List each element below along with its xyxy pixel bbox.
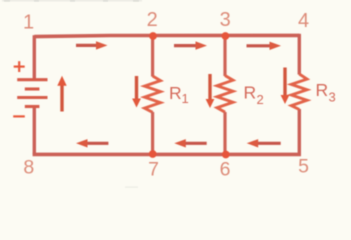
svg-text:R: R [244, 83, 257, 103]
svg-text:R: R [169, 83, 182, 103]
svg-text:1: 1 [182, 91, 189, 106]
wire left upper (node1 to battery) [33, 35, 36, 78]
svg-text:1: 1 [23, 11, 34, 33]
resistor R2 zigzag [217, 76, 233, 113]
resistor R3 zigzag (in right wire) [291, 74, 307, 110]
battery - sign [13, 115, 25, 117]
current arrow down (R2 branch) [206, 74, 215, 108]
svg-text:2: 2 [257, 92, 264, 107]
current arrow up (battery branch) [57, 76, 66, 112]
junction node 6 [222, 151, 230, 159]
current arrow right (node2-3 segment) [174, 41, 207, 49]
wire branch node3-6 upper stub [223, 36, 226, 77]
svg-text:8: 8 [23, 157, 34, 179]
svg-text:R: R [316, 80, 329, 100]
wire right lower (R3 to node5) [298, 109, 301, 154]
current arrow left (node8-7 segment) [76, 139, 108, 147]
svg-text:6: 6 [220, 159, 231, 181]
wire right upper (node4 to R3) [298, 34, 301, 75]
current arrow down (R1 branch) [132, 76, 141, 108]
svg-text:7: 7 [148, 159, 159, 181]
battery B1 plates [17, 80, 47, 107]
cropped text remnant top edge [2, 0, 142, 2]
resistor R1 zigzag [145, 76, 161, 112]
svg-text:5: 5 [298, 156, 309, 178]
wire top (node1-2-3-4) [34, 35, 299, 36]
junction node 7 [149, 150, 157, 158]
current arrow right (node1-2 segment) [76, 41, 108, 49]
wire branch node3-6 lower stub [223, 112, 226, 154]
svg-text:3: 3 [220, 9, 231, 31]
svg-text:3: 3 [329, 90, 336, 105]
battery + sign [14, 61, 25, 72]
current arrow left (node7-6 segment) [174, 139, 206, 147]
current arrow down (R3 branch) [281, 68, 290, 105]
wire left lower (battery to node8) [33, 107, 36, 154]
svg-text:2: 2 [147, 9, 158, 31]
cropped caption remnant bottom [125, 187, 138, 188]
wire branch node2-7 upper stub [151, 36, 154, 77]
current arrow right (node3-4 segment) [247, 42, 282, 50]
svg-text:4: 4 [298, 10, 309, 32]
wire branch node2-7 lower stub [151, 112, 154, 154]
junction node 2 [149, 32, 157, 40]
wire bottom (node8-7-6-5) [33, 153, 301, 157]
current arrow left (node6-5 segment) [247, 139, 281, 147]
junction node 3 [222, 32, 230, 40]
